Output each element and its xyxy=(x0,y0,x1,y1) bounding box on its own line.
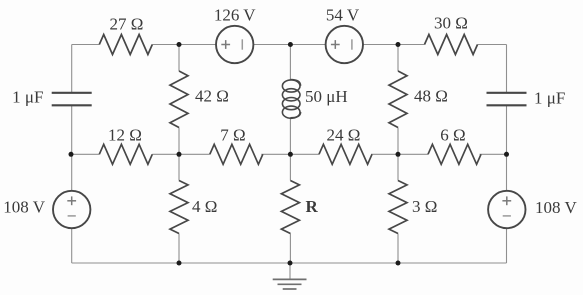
svg-text:24 Ω: 24 Ω xyxy=(327,126,361,145)
voltage source V1 126V xyxy=(216,26,253,63)
voltage source V4 108V right xyxy=(488,191,525,228)
resistor R10 R xyxy=(281,181,299,234)
wire branch B bottom xyxy=(178,234,180,264)
wire mid wire seg3 xyxy=(261,153,319,155)
svg-text:1 μF: 1 μF xyxy=(534,89,565,108)
resistor R6 6ohm xyxy=(428,144,481,164)
svg-text:12 Ω: 12 Ω xyxy=(108,126,142,145)
node mid-D xyxy=(396,152,401,157)
capacitor C1 1uF left xyxy=(52,93,92,106)
svg-text:6 Ω: 6 Ω xyxy=(440,126,465,145)
resistor R4 7ohm xyxy=(210,144,263,164)
resistor R2 30ohm xyxy=(425,35,478,55)
wire left rail bottom xyxy=(71,229,73,263)
wire branch C bottom xyxy=(289,234,291,264)
resistor R1 27ohm xyxy=(99,35,152,55)
resistor R5 24ohm xyxy=(319,144,372,164)
voltage source V3 108V left xyxy=(53,191,90,228)
wire top wire seg3 xyxy=(253,44,325,46)
resistor R7 42ohm xyxy=(170,71,188,128)
wire mid wire seg2 xyxy=(152,153,210,155)
svg-text:108 V: 108 V xyxy=(535,198,577,217)
wire top wire left xyxy=(72,44,100,46)
svg-text:108 V: 108 V xyxy=(3,198,45,217)
wire mid wire seg5 xyxy=(480,153,507,155)
wire branch C top xyxy=(289,45,291,80)
resistor R3 12ohm xyxy=(99,144,152,164)
node bot-B xyxy=(177,261,182,266)
svg-text:27 Ω: 27 Ω xyxy=(110,15,144,34)
wire right rail mid xyxy=(506,106,508,191)
svg-text:1 μF: 1 μF xyxy=(12,88,43,107)
resistor R9 4ohm xyxy=(170,181,188,234)
wire branch D top xyxy=(397,45,399,72)
wire branch C mid xyxy=(289,118,291,181)
capacitor C2 1uF right xyxy=(487,93,527,106)
svg-text:4 Ω: 4 Ω xyxy=(192,197,217,216)
node mid-E xyxy=(504,152,509,157)
wire branch D bottom xyxy=(397,234,399,264)
wire right rail bottom xyxy=(506,229,508,263)
svg-text:7 Ω: 7 Ω xyxy=(220,126,245,145)
node bot-D xyxy=(396,261,401,266)
wire branch B mid xyxy=(178,128,180,181)
wire mid wire seg1 xyxy=(71,153,99,155)
wire branch B top xyxy=(178,45,180,72)
resistor R11 3ohm xyxy=(389,181,407,234)
node mid-A xyxy=(69,152,74,157)
inductor L1 50uH xyxy=(282,80,300,119)
wire left rail top xyxy=(71,45,73,93)
svg-text:42 Ω: 42 Ω xyxy=(195,87,229,106)
node mid-C xyxy=(288,152,293,157)
wire branch D mid xyxy=(397,128,399,181)
node top-D xyxy=(396,42,401,47)
node top-B xyxy=(177,42,182,47)
svg-text:126 V: 126 V xyxy=(214,6,256,25)
svg-text:50 μH: 50 μH xyxy=(305,87,348,106)
wire left rail mid xyxy=(71,106,73,191)
svg-text:48 Ω: 48 Ω xyxy=(414,87,448,106)
wire bottom wire xyxy=(72,262,507,264)
svg-text:54 V: 54 V xyxy=(326,6,360,25)
wire right rail top xyxy=(506,45,508,93)
wire top wire seg2 xyxy=(152,44,216,46)
wire top wire right xyxy=(478,44,507,46)
node bot-C ground xyxy=(288,261,293,266)
wire top wire seg4 xyxy=(363,44,424,46)
wire ground stem xyxy=(289,263,291,279)
voltage source V2 54V xyxy=(326,26,363,63)
svg-text:3 Ω: 3 Ω xyxy=(412,197,437,216)
wire mid wire seg4 xyxy=(371,153,428,155)
svg-text:30 Ω: 30 Ω xyxy=(434,14,468,33)
svg-text:R: R xyxy=(306,197,319,216)
resistor R8 48ohm xyxy=(389,71,407,128)
node top-C xyxy=(288,42,293,47)
ground xyxy=(273,279,307,289)
node mid-B xyxy=(177,152,182,157)
